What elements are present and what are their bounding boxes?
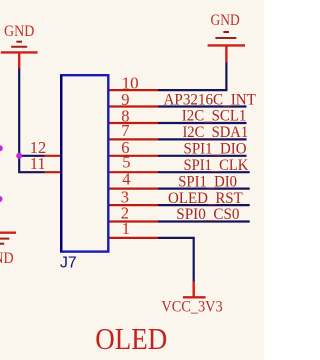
svg-text:I2C_SDA1: I2C_SDA1 [182, 124, 248, 141]
svg-text:SPI1_DIO: SPI1_DIO [184, 141, 247, 158]
svg-text:1: 1 [122, 219, 130, 238]
svg-text:J7: J7 [60, 254, 77, 271]
svg-text:OLED: OLED [95, 322, 167, 356]
svg-text:GND: GND [0, 250, 14, 267]
svg-text:AP3216C_INT: AP3216C_INT [164, 91, 257, 108]
svg-text:4: 4 [122, 170, 130, 189]
svg-text:VCC_3V3: VCC_3V3 [161, 296, 222, 315]
svg-text:OLED_RST: OLED_RST [168, 190, 243, 207]
svg-text:SPI1_DI0: SPI1_DI0 [178, 173, 237, 190]
svg-text:SPI0_CS0: SPI0_CS0 [176, 206, 239, 223]
svg-text:I2C_SCL1: I2C_SCL1 [182, 108, 247, 125]
svg-text:GND: GND [211, 12, 240, 29]
svg-text:11: 11 [30, 154, 46, 173]
svg-text:SPI1_CLK: SPI1_CLK [183, 157, 249, 174]
svg-text:GND: GND [4, 23, 34, 40]
